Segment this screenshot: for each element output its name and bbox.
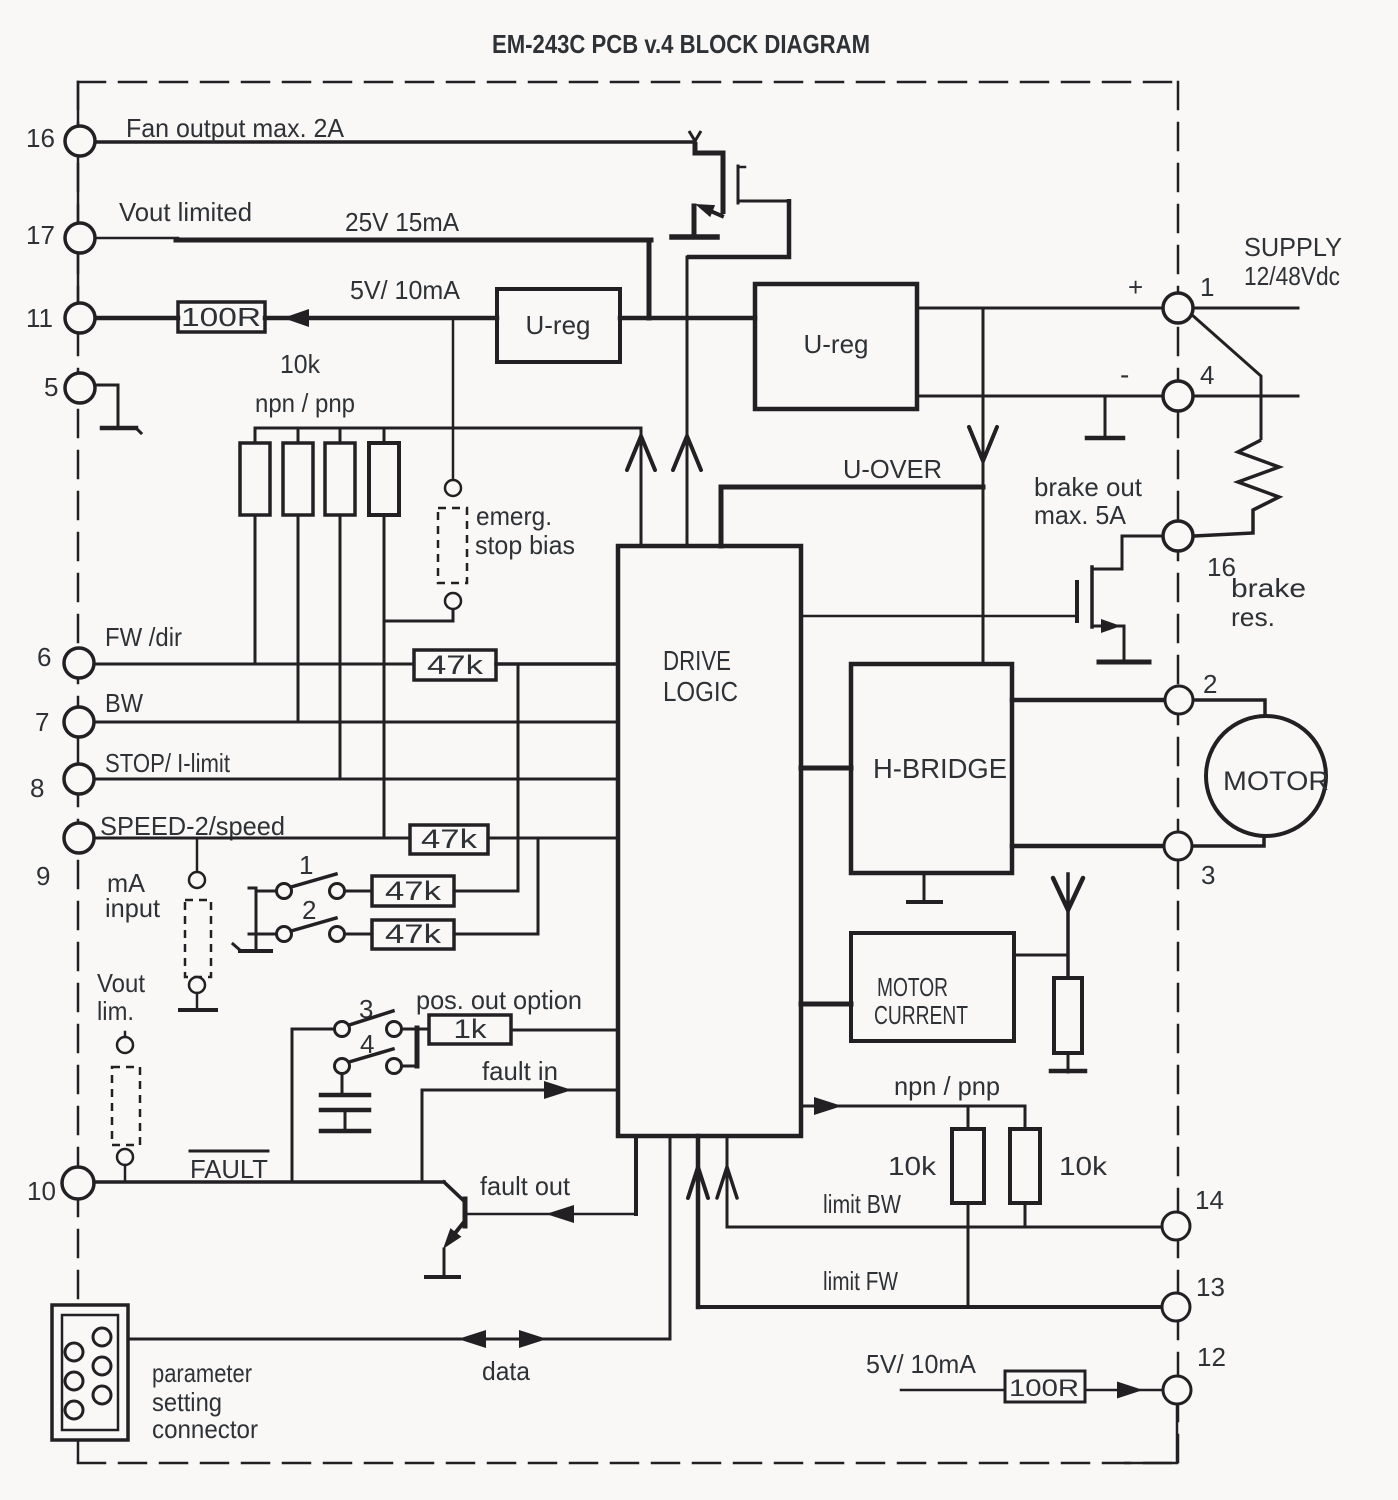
label pin 1 <box>1200 272 1214 302</box>
terminal 10 <box>62 1167 94 1199</box>
connector pin A1 <box>65 1343 83 1361</box>
wire rail to drive logic <box>640 428 643 546</box>
wire sw4 right up <box>402 1028 417 1066</box>
label fan output <box>126 113 345 143</box>
block H-BRIDGE <box>851 664 1012 873</box>
resistor 10k-3 <box>325 428 355 515</box>
label limit BW <box>823 1189 901 1219</box>
wire U-OVER rail <box>721 485 983 490</box>
label fault in <box>482 1056 558 1086</box>
label 12/48Vdc <box>1244 261 1340 291</box>
terminal 8 <box>64 764 94 794</box>
ground mA input <box>180 993 216 1010</box>
wire FAULT to transistor base <box>444 1182 464 1201</box>
resistor 47k sw2 <box>372 919 454 949</box>
svg-text:47k: 47k <box>427 650 484 680</box>
wire 47k sw1 up <box>454 890 518 893</box>
svg-text:Vout limited: Vout limited <box>119 197 252 227</box>
terminal 4 <box>1163 381 1193 411</box>
wire 10k rail <box>255 427 641 430</box>
resistor 10k-1 <box>240 428 270 515</box>
ground fault transistor <box>426 1275 459 1279</box>
label FAULT <box>190 1151 268 1184</box>
wire brake out <box>1092 536 1162 569</box>
resistor 47k SPEED <box>410 824 488 854</box>
wire motor current to sense node <box>1014 954 1068 957</box>
wire SPEED to 47k <box>94 837 410 840</box>
wire U-reg out to U-reg big <box>620 316 755 321</box>
wire pin3 to motor <box>1192 836 1264 846</box>
terminal 6 <box>64 648 94 678</box>
wire 100R to pin 12 <box>1085 1382 1162 1399</box>
label parameter setting connector <box>152 1358 258 1444</box>
svg-text:data: data <box>482 1356 531 1386</box>
svg-text:BW: BW <box>105 688 143 718</box>
label 25V 15mA <box>345 207 460 237</box>
wire 25V to U-reg input <box>647 240 652 318</box>
label minus <box>1120 359 1129 390</box>
resistor 47k FW <box>414 650 496 680</box>
connector pin B1 <box>93 1328 111 1346</box>
svg-text:11: 11 <box>26 303 53 333</box>
svg-text:12/48Vdc: 12/48Vdc <box>1244 261 1340 291</box>
label U-OVER <box>843 454 942 484</box>
resistor 10k-R2 <box>1010 1129 1040 1203</box>
svg-text:3: 3 <box>1201 860 1215 890</box>
svg-text:npn / pnp: npn / pnp <box>894 1071 1000 1101</box>
terminal 5 <box>65 373 95 403</box>
wire data up to drive logic <box>669 1136 672 1339</box>
svg-text:lim.: lim. <box>97 996 134 1026</box>
terminal 2 <box>1165 686 1193 714</box>
svg-text:10k: 10k <box>280 349 321 379</box>
regulator U-reg main <box>755 284 917 409</box>
wire hbridge to pin2 <box>1012 698 1164 703</box>
wire to 10k-R1 <box>967 1106 970 1129</box>
wire STOP to drive logic <box>94 778 618 781</box>
svg-text:STOP/ I-limit: STOP/ I-limit <box>105 748 231 778</box>
terminal 1 <box>1163 293 1193 323</box>
label switch 4 <box>360 1029 374 1059</box>
switch 1 <box>277 874 345 899</box>
resistor 10k-2 <box>283 428 313 515</box>
connector pin A3 <box>65 1401 83 1419</box>
svg-text:input: input <box>105 893 161 923</box>
svg-text:10k: 10k <box>888 1151 937 1181</box>
label 10k-R1 <box>888 1151 937 1181</box>
wire sw4 left to capacitor <box>341 1074 344 1094</box>
wire fan gate to drive logic <box>687 199 789 546</box>
svg-text:47k: 47k <box>421 824 478 854</box>
svg-text:-: - <box>1120 359 1129 390</box>
ground H-BRIDGE <box>908 873 941 902</box>
label brake out <box>1034 472 1143 530</box>
terminal 13 <box>1162 1293 1190 1321</box>
Vout lim top stub <box>124 1032 127 1037</box>
svg-text:max. 5A: max. 5A <box>1034 500 1127 530</box>
wire 10k-R2 down to limit BW <box>1024 1203 1027 1227</box>
connector outer box <box>52 1305 128 1440</box>
dashed enclosure border bottom <box>78 1462 1178 1465</box>
label switch 1 <box>299 850 313 880</box>
terminal 11 <box>65 303 95 333</box>
arrow up into drive logic (gate line) <box>673 436 701 470</box>
resistor 47k sw1 <box>372 876 454 906</box>
label pin 2 <box>1203 669 1217 699</box>
arrow down sense <box>1053 878 1083 910</box>
label BW <box>105 688 143 718</box>
svg-text:+: + <box>1128 272 1143 302</box>
wire supply minus out <box>1193 395 1298 398</box>
label pin 10 <box>27 1176 56 1206</box>
svg-text:1: 1 <box>1200 272 1214 302</box>
label pin 16 brake <box>1207 552 1236 582</box>
wire fault in <box>422 1081 618 1099</box>
capacitor plate top <box>321 1093 369 1098</box>
title <box>492 29 870 59</box>
label emerg stop bias <box>475 501 575 560</box>
label pin 17 <box>26 220 55 250</box>
svg-text:9: 9 <box>36 861 50 891</box>
dashed enclosure border left <box>77 82 80 1463</box>
connector inner box <box>62 1315 118 1430</box>
label mA input <box>105 868 161 923</box>
svg-text:stop bias: stop bias <box>475 530 575 560</box>
svg-text:25V 15mA: 25V 15mA <box>345 207 460 237</box>
sense resistor <box>1054 978 1082 1053</box>
svg-text:npn / pnp: npn / pnp <box>255 388 355 418</box>
ground sense resistor <box>1051 1069 1085 1074</box>
svg-text:2: 2 <box>302 895 316 925</box>
wire limit FW <box>698 1136 1162 1307</box>
wire data line <box>128 1338 670 1341</box>
wire BW to drive logic <box>94 721 618 724</box>
wire fan output <box>95 140 695 144</box>
wire hbridge to pin3 <box>1012 844 1164 849</box>
svg-text:47k: 47k <box>385 876 442 906</box>
wire fault out up to drive logic <box>634 1138 638 1214</box>
terminal 16 brake <box>1163 521 1193 551</box>
terminal 16 <box>65 126 95 156</box>
terminal 17 <box>65 223 95 253</box>
ground at minus rail <box>1087 396 1123 438</box>
wire speed tap to mA node <box>196 838 199 872</box>
svg-text:47k: 47k <box>385 919 442 949</box>
label Vout limited <box>119 197 252 227</box>
label brake res <box>1231 573 1306 632</box>
wire brake source down <box>1123 626 1126 661</box>
svg-text:6: 6 <box>37 642 51 672</box>
wire sw2 left <box>249 933 276 936</box>
fault transistor Q2 emitter <box>443 1222 464 1249</box>
svg-text:2: 2 <box>1203 669 1217 699</box>
brake MOSFET gate bar <box>1075 582 1079 621</box>
svg-text:10k: 10k <box>1059 1151 1108 1181</box>
wire 5V to 100R <box>901 1389 1005 1392</box>
motor M1 <box>1206 716 1329 836</box>
terminal 3 <box>1164 832 1192 860</box>
switch 2 <box>277 918 345 942</box>
svg-text:LOGIC: LOGIC <box>663 676 738 707</box>
wire drive logic to motor current <box>801 1002 851 1007</box>
wire minus rail <box>917 395 1163 398</box>
brake MOSFET source <box>1092 619 1124 633</box>
label MOTOR CURRENT <box>874 972 968 1030</box>
svg-text:FW /dir: FW /dir <box>105 622 182 652</box>
fan wire end arrow <box>689 131 701 141</box>
wire sense to ground <box>1067 1053 1070 1072</box>
wire 47k FW to drive logic <box>496 662 618 666</box>
svg-text:10: 10 <box>27 1176 56 1206</box>
wire FW branch down <box>517 664 520 891</box>
svg-text:FAULT: FAULT <box>190 1154 268 1184</box>
wire FAULT line <box>94 1180 444 1184</box>
wire drive logic to brake gate <box>801 615 1077 618</box>
mA bottom node circle <box>189 977 205 993</box>
svg-text:16: 16 <box>26 123 55 153</box>
label pin 4 <box>1200 360 1214 390</box>
svg-text:pos. out option: pos. out option <box>416 985 582 1015</box>
wire 47k sw2 up <box>454 933 538 936</box>
ground brake MOSFET <box>1099 660 1149 665</box>
svg-text:DRIVE: DRIVE <box>663 645 731 676</box>
block MOTOR CURRENT <box>851 933 1014 1041</box>
svg-text:17: 17 <box>26 220 55 250</box>
ground switch common <box>233 944 271 951</box>
wire 10k-R1 down to limit FW <box>967 1203 970 1307</box>
svg-text:SUPPLY: SUPPLY <box>1244 232 1342 262</box>
label 5V 10mA <box>350 275 461 305</box>
arrow up limit FW <box>688 1167 708 1198</box>
svg-text:Vout: Vout <box>97 968 146 998</box>
svg-text:connector: connector <box>152 1414 258 1444</box>
svg-text:4: 4 <box>1200 360 1214 390</box>
emerg top node circle <box>445 480 461 496</box>
resistor 10k-R1 <box>952 1129 984 1203</box>
label pin 3 <box>1201 860 1215 890</box>
wire pin2 to motor <box>1193 700 1265 717</box>
label pin 5 <box>44 372 58 402</box>
ground capacitor <box>321 1129 369 1134</box>
resistor 10k-4 <box>369 428 399 515</box>
svg-text:100R: 100R <box>181 302 261 332</box>
svg-text:brake: brake <box>1231 573 1306 603</box>
fan transistor Q1 source lead <box>692 206 697 236</box>
svg-text:fault out: fault out <box>480 1171 571 1201</box>
wire Vout lim to FAULT <box>124 1165 127 1182</box>
wire 1k to drive logic <box>511 1029 618 1032</box>
mA top node circle <box>189 872 205 888</box>
svg-text:8: 8 <box>30 773 44 803</box>
wire sw3 right <box>402 1028 429 1031</box>
svg-text:limit FW: limit FW <box>823 1266 898 1296</box>
label SUPPLY <box>1244 232 1342 262</box>
label plus <box>1128 272 1143 302</box>
emerg bottom node circle <box>445 593 461 609</box>
label pin 8 <box>30 773 44 803</box>
wire U-OVER to drive logic <box>719 487 724 546</box>
label pin 6 <box>37 642 51 672</box>
svg-text:H-BRIDGE: H-BRIDGE <box>873 753 1007 784</box>
wire pin11 to 100R <box>95 316 178 321</box>
svg-text:EM-243C PCB v.4 BLOCK DIAGRAM: EM-243C PCB v.4 BLOCK DIAGRAM <box>492 29 870 59</box>
terminal 14 <box>1162 1212 1190 1240</box>
switch 3 <box>335 1011 402 1037</box>
data double arrow <box>458 1330 547 1348</box>
emerg stop bias resistor (dashed) <box>438 508 467 583</box>
label Vout lim <box>97 968 146 1026</box>
label SPEED-2/speed <box>100 811 285 841</box>
fan transistor Q1 bottom bar <box>672 234 717 240</box>
switch common rail <box>249 888 256 951</box>
svg-text:fault in: fault in <box>482 1056 558 1086</box>
svg-text:CURRENT: CURRENT <box>874 1000 968 1030</box>
svg-text:U-reg: U-reg <box>525 310 590 340</box>
wire sw3 left <box>292 1028 334 1031</box>
svg-text:limit BW: limit BW <box>823 1189 901 1219</box>
label data <box>482 1356 531 1386</box>
label pin 9 <box>36 861 50 891</box>
wire emerg to speed branch <box>384 609 453 621</box>
terminal 12 <box>1163 1376 1191 1404</box>
label fault out <box>480 1171 571 1201</box>
wire sw1 right to 47k <box>345 890 372 893</box>
label limit FW <box>823 1266 898 1296</box>
wire 5V tap to emerg <box>452 320 455 480</box>
node main power drop <box>982 308 985 664</box>
label switch 2 <box>302 895 316 925</box>
wire plus rail <box>917 307 1163 310</box>
terminal 9 <box>64 823 94 853</box>
svg-text:Fan output max. 2A: Fan output max. 2A <box>126 113 345 143</box>
label FW /dir <box>105 622 182 652</box>
wire diagonal pin1 to brake res <box>1191 314 1261 440</box>
svg-text:16: 16 <box>1207 552 1236 582</box>
mA input resistor (dashed) <box>185 900 211 977</box>
svg-text:1k: 1k <box>454 1014 488 1044</box>
resistor 100R (pin 11) <box>178 302 265 332</box>
svg-text:MOTOR: MOTOR <box>877 972 948 1002</box>
svg-text:res.: res. <box>1231 602 1275 632</box>
wire 10k-1 to FW <box>254 515 257 664</box>
wire 47k SPEED to drive logic <box>488 837 618 840</box>
wire SPEED branch down <box>537 838 540 934</box>
svg-text:setting: setting <box>152 1387 222 1417</box>
label pin 12 <box>1197 1342 1226 1372</box>
label pin 11 <box>26 303 53 333</box>
resistor 100R (pin 12) <box>1005 1371 1085 1402</box>
wire limit BW <box>727 1136 1162 1227</box>
fault transistor Q2 base bar <box>463 1199 468 1226</box>
label switch 3 <box>359 994 373 1024</box>
label pos out option <box>416 985 582 1015</box>
border solid corner at pin 12 <box>1124 1404 1177 1463</box>
svg-text:7: 7 <box>35 707 49 737</box>
wire FW to 47k <box>94 663 414 666</box>
wire emitter to ground <box>443 1249 446 1276</box>
switch 4 <box>335 1049 402 1074</box>
block DRIVE LOGIC <box>618 546 801 1136</box>
connector pin B2 <box>93 1357 111 1375</box>
label 10k bank <box>280 349 321 379</box>
label 10k-R2 <box>1059 1151 1108 1181</box>
wire 10k-3 to STOP <box>339 515 342 779</box>
brake MOSFET channel <box>1090 567 1094 627</box>
svg-text:U-reg: U-reg <box>803 329 868 359</box>
svg-text:MOTOR: MOTOR <box>1223 766 1329 796</box>
svg-text:5V/ 10mA: 5V/ 10mA <box>350 275 461 305</box>
label STOP/I-limit <box>105 748 231 778</box>
wire hbridge to sense resistor <box>1066 874 1070 978</box>
label pin 16 <box>26 123 55 153</box>
svg-text:5: 5 <box>44 372 58 402</box>
svg-text:5V/ 10mA: 5V/ 10mA <box>866 1349 977 1379</box>
wire 100R to U-reg <box>265 316 497 321</box>
wire to 10k-R2 <box>1024 1106 1027 1129</box>
svg-text:13: 13 <box>1196 1272 1225 1302</box>
label DRIVE LOGIC <box>663 645 738 707</box>
wire Vout limited thin <box>95 237 178 240</box>
wire drive logic to hbridge <box>801 766 851 771</box>
arrow up limit BW <box>717 1167 737 1198</box>
wire sw1 left <box>256 890 276 893</box>
ground at pin 5 <box>95 385 141 433</box>
svg-text:brake out: brake out <box>1034 472 1143 502</box>
wire 10k-2 to BW <box>297 515 300 722</box>
label pin 14 <box>1195 1185 1224 1215</box>
wire supply plus out <box>1193 307 1298 310</box>
resistor 1k <box>429 1014 511 1044</box>
wire npn pnp select <box>801 1097 1025 1115</box>
wire fault out <box>467 1205 636 1223</box>
svg-text:14: 14 <box>1195 1185 1224 1215</box>
label npn/pnp bank <box>255 388 355 418</box>
wire sw2 right to 47k <box>345 933 372 936</box>
svg-text:12: 12 <box>1197 1342 1226 1372</box>
svg-text:emerg.: emerg. <box>476 501 552 531</box>
wire sw3 common down to FAULT <box>291 1029 294 1182</box>
arrow down on power drop <box>969 427 997 461</box>
fan transistor Q1 source path <box>695 142 723 214</box>
wire 10k-4 to SPEED <box>383 515 386 838</box>
svg-text:U-OVER: U-OVER <box>843 454 942 484</box>
left border solid segment (pins 16-11) <box>77 82 80 331</box>
brake resistor zigzag <box>1194 440 1279 536</box>
wire 25V rail <box>176 238 651 243</box>
svg-text:parameter: parameter <box>152 1358 252 1388</box>
label pin 13 <box>1196 1272 1225 1302</box>
fan transistor Q1 source arrow <box>695 204 722 217</box>
connector pin B3 <box>93 1386 111 1404</box>
Vout lim bottom circle <box>117 1149 133 1165</box>
arrow left on 5V wire <box>283 309 309 327</box>
fan transistor Q1 gate bar <box>738 166 745 203</box>
wire fault in down to FAULT <box>421 1090 424 1182</box>
Vout lim resistor (dashed) <box>112 1067 140 1145</box>
svg-text:1: 1 <box>299 850 313 880</box>
regulator U-reg small <box>497 289 620 362</box>
dashed enclosure border right <box>1177 82 1180 1463</box>
terminal 7 <box>64 707 94 737</box>
arrow up into drive logic (rail) <box>627 436 655 470</box>
label npn/pnp right <box>894 1071 1000 1101</box>
label 5V 10mA bottom <box>866 1349 977 1379</box>
dashed enclosure border top <box>78 81 1178 84</box>
label H-BRIDGE <box>873 753 1007 784</box>
connector pin A2 <box>65 1372 83 1390</box>
label pin 7 <box>35 707 49 737</box>
capacitor plate bottom <box>321 1108 369 1113</box>
